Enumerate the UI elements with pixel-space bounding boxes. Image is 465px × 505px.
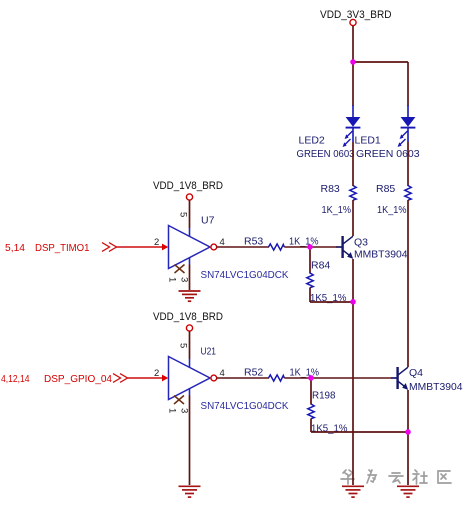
wire node down to R84 xyxy=(309,247,311,274)
junction dot at emitter/R84 xyxy=(350,299,355,304)
svg-text:1: 1 xyxy=(167,277,178,282)
svg-text:R52: R52 xyxy=(244,367,263,379)
input arrowhead pin 2 xyxy=(162,244,168,251)
svg-text:Q3: Q3 xyxy=(354,237,368,249)
svg-text:3: 3 xyxy=(179,408,190,413)
ground below U7 xyxy=(179,291,201,301)
resistor R84 xyxy=(307,273,313,288)
wire left branch down to LED2 xyxy=(352,62,354,106)
svg-text:5: 5 xyxy=(178,343,189,348)
wire R53 to Q3 base xyxy=(284,246,336,248)
svg-text:VDD_3V3_BRD: VDD_3V3_BRD xyxy=(320,9,392,21)
svg-text:GREEN 0603: GREEN 0603 xyxy=(356,148,420,160)
pin 5 wire xyxy=(189,331,191,359)
wire R83 to Q3 collector xyxy=(352,200,354,236)
ground at x=408 xyxy=(397,486,419,497)
svg-text:R84: R84 xyxy=(311,260,330,272)
output bubble xyxy=(211,375,217,381)
she xyxy=(413,470,427,484)
junction dot R52/R198 xyxy=(308,375,313,380)
junction dot R52/R198 node xyxy=(308,375,313,380)
hua xyxy=(341,470,354,484)
off-page chevron xyxy=(102,243,117,252)
svg-text:2: 2 xyxy=(154,368,159,379)
no-connect X on pin 1 xyxy=(174,396,184,405)
power symbol VDD_3V3_BRD xyxy=(350,19,356,25)
svg-text:LED1: LED1 xyxy=(355,135,381,147)
svg-text:R83: R83 xyxy=(321,183,340,195)
svg-text:SN74LVC1G04DCK: SN74LVC1G04DCK xyxy=(201,400,289,412)
input wire xyxy=(117,246,164,248)
wire LED1 to R85 xyxy=(407,142,409,186)
wire R198 to Q4 emitter node xyxy=(311,431,408,433)
wire R85 to Q4 collector xyxy=(407,200,409,367)
junction dot bottom right xyxy=(405,429,410,434)
wire LED2 to R83 xyxy=(352,142,354,186)
off-page chevron xyxy=(113,374,128,383)
svg-text:VDD_1V8_BRD: VDD_1V8_BRD xyxy=(153,311,223,323)
resistor R83 xyxy=(350,186,356,201)
svg-text:DSP_TIMO1: DSP_TIMO1 xyxy=(35,242,90,254)
qu xyxy=(438,471,451,483)
wire R84 to emitter node xyxy=(310,301,353,303)
ground below U21 xyxy=(179,486,201,497)
ground at x=353 xyxy=(342,486,364,497)
transistor Q4 xyxy=(391,367,408,390)
junction dot xyxy=(350,59,355,64)
svg-text:R85: R85 xyxy=(376,183,395,195)
inverter U7 triangle xyxy=(169,226,211,269)
power symbol VDD_1V8_BRD xyxy=(186,325,192,331)
svg-text:1K_1%: 1K_1% xyxy=(289,236,319,248)
svg-text:LED2: LED2 xyxy=(299,135,325,147)
junction dot R53/R84 node xyxy=(307,244,312,249)
wire down to ground xyxy=(407,432,409,485)
wire node down to R198 xyxy=(310,378,312,405)
transistor Q3 xyxy=(336,236,353,259)
junction dot VDD branch (top) xyxy=(350,59,355,64)
wire R52 to Q4 base xyxy=(284,377,391,379)
pin 3 wire to ground xyxy=(189,258,191,265)
svg-text:5: 5 xyxy=(178,212,189,217)
svg-text:R53: R53 xyxy=(244,236,263,248)
svg-text:SN74LVC1G04DCK: SN74LVC1G04DCK xyxy=(201,269,289,281)
yun xyxy=(389,473,403,483)
svg-text:VDD_1V8_BRD: VDD_1V8_BRD xyxy=(153,180,223,192)
junction dot Q4 emitter node xyxy=(405,429,410,434)
wire Q3 emitter down xyxy=(352,259,354,302)
svg-text:MMBT3904: MMBT3904 xyxy=(354,249,408,261)
resistor R53 xyxy=(269,244,285,250)
svg-text:1K_1%: 1K_1% xyxy=(290,367,320,379)
junction dot Q3 emitter node xyxy=(350,299,355,304)
inverter U21 triangle xyxy=(169,357,211,400)
LED LED1 xyxy=(398,105,416,147)
output bubble xyxy=(211,244,217,250)
input arrowhead pin 2 xyxy=(162,375,168,382)
watermark 华为云社区 xyxy=(341,470,451,484)
wire R198 bottom xyxy=(310,419,312,433)
no-connect X on pin 1 xyxy=(175,265,185,274)
LED LED2 xyxy=(343,105,361,147)
svg-text:4: 4 xyxy=(220,237,225,248)
resistor R52 xyxy=(269,375,285,381)
wire R84 bottom xyxy=(309,288,311,303)
svg-text:4,12,14: 4,12,14 xyxy=(1,373,30,385)
wire from VDD circle to junction xyxy=(352,26,354,62)
wire right branch down to LED1 xyxy=(407,62,409,106)
svg-text:4: 4 xyxy=(220,368,225,379)
wire emitter node down to ground xyxy=(352,302,354,485)
input wire xyxy=(128,377,164,379)
svg-text:GREEN 0603: GREEN 0603 xyxy=(297,148,355,160)
junction dot R53/R84 xyxy=(307,244,312,249)
pin 3 wire to bottom ground xyxy=(189,389,191,396)
wei xyxy=(367,470,376,483)
wire Q4 emitter down xyxy=(407,390,409,432)
output wire U21 to R52 xyxy=(217,377,269,379)
svg-text:R198: R198 xyxy=(312,390,336,402)
svg-text:5,14: 5,14 xyxy=(5,242,25,254)
svg-text:1: 1 xyxy=(167,408,178,413)
svg-text:2: 2 xyxy=(154,237,159,248)
svg-text:U21: U21 xyxy=(201,346,217,358)
svg-text:MMBT3904: MMBT3904 xyxy=(409,381,463,393)
svg-text:1K_1%: 1K_1% xyxy=(377,204,407,216)
pin 5 wire xyxy=(189,200,191,228)
output wire U7 to R53 xyxy=(217,246,269,248)
resistor R85 xyxy=(405,186,411,201)
power symbol VDD_1V8_BRD xyxy=(186,194,192,200)
svg-text:1K_1%: 1K_1% xyxy=(322,204,352,216)
svg-text:DSP_GPIO_04: DSP_GPIO_04 xyxy=(44,373,112,385)
svg-text:Q4: Q4 xyxy=(409,367,423,379)
svg-text:U7: U7 xyxy=(201,215,215,227)
svg-text:3: 3 xyxy=(179,277,190,282)
wire branch horizontal xyxy=(353,61,408,63)
resistor R198 xyxy=(308,404,314,419)
